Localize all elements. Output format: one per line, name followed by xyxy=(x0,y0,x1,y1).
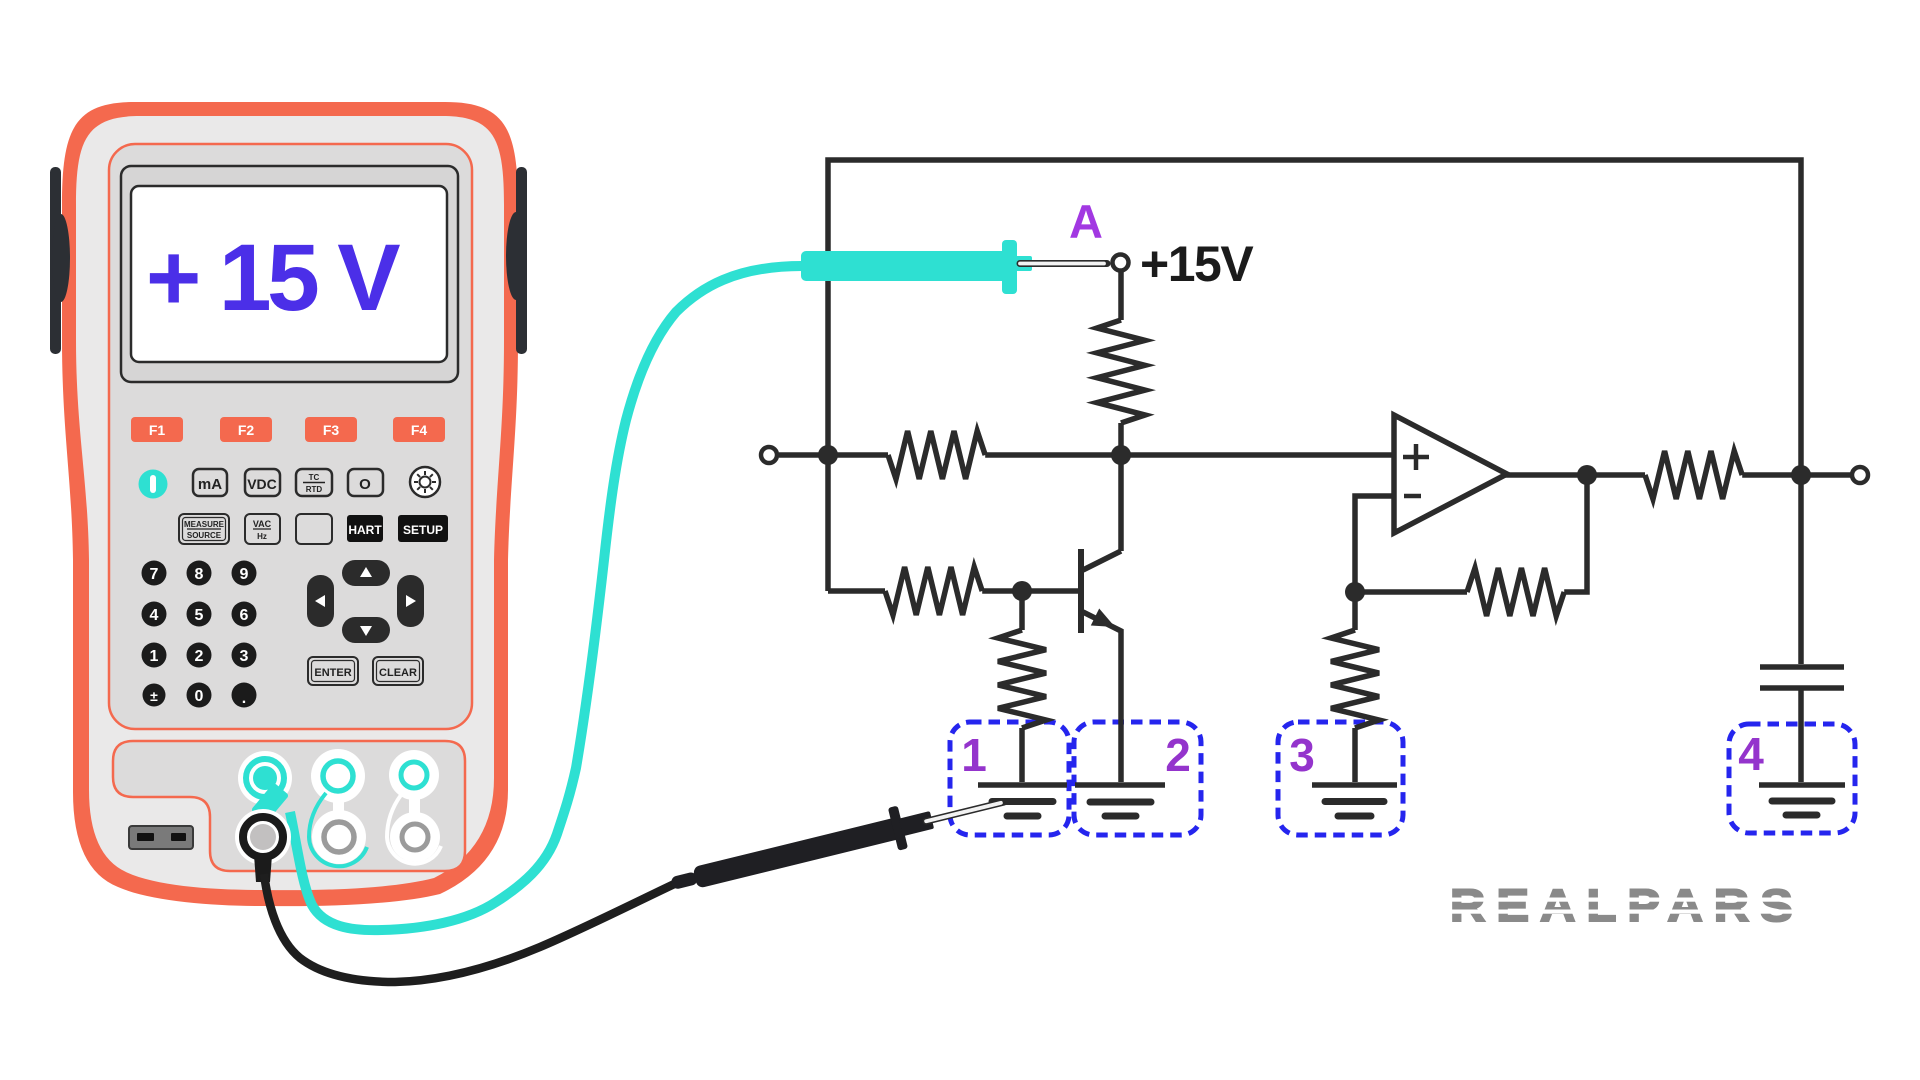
svg-text:3: 3 xyxy=(240,648,249,665)
wire: top rail and side verticals xyxy=(828,160,1801,664)
calibrator body shell xyxy=(62,102,518,906)
resistor R1 row1 xyxy=(888,431,985,479)
svg-text:3: 3 xyxy=(1289,729,1315,781)
svg-text:2: 2 xyxy=(195,648,204,665)
svg-text:VDC: VDC xyxy=(247,476,277,492)
wire: +15V node down xyxy=(1118,272,1124,320)
wire: R5 to ground 3 xyxy=(1352,728,1358,782)
right jack keyhole link xyxy=(389,750,439,800)
F2 button xyxy=(220,417,272,442)
nav pad right xyxy=(397,575,424,627)
teal source jack xyxy=(238,751,292,805)
black test lead cable xyxy=(264,874,687,982)
svg-text:Hz: Hz xyxy=(257,532,267,541)
ground box 3 xyxy=(1278,722,1403,835)
svg-text:4: 4 xyxy=(150,607,159,624)
VDC button xyxy=(245,469,280,496)
HART button xyxy=(347,515,383,542)
nav pad up xyxy=(342,560,390,586)
svg-text:HART: HART xyxy=(348,523,382,537)
resistor R4 below base node xyxy=(1019,591,1025,630)
svg-text:+ 15 V: + 15 V xyxy=(146,225,400,331)
svg-text:mA: mA xyxy=(198,476,222,493)
svg-text:F3: F3 xyxy=(323,422,340,438)
teal plug xyxy=(251,783,289,823)
ground 3 xyxy=(1312,785,1397,816)
wire: R7 to output terminal xyxy=(1742,472,1852,478)
svg-text:1: 1 xyxy=(961,729,987,781)
capacitor C1 plates xyxy=(1760,664,1844,670)
right bottom jack xyxy=(402,824,428,850)
svg-text:4: 4 xyxy=(1738,728,1764,780)
svg-text:ENTER: ENTER xyxy=(314,667,351,679)
svg-text:.: . xyxy=(242,690,246,707)
ground 4 xyxy=(1759,785,1845,815)
blank button xyxy=(296,514,332,544)
output terminal xyxy=(1852,467,1868,483)
teal test lead cable xyxy=(290,266,802,930)
black probe xyxy=(666,781,1009,905)
F1 button xyxy=(131,417,445,442)
svg-text:6: 6 xyxy=(240,607,249,624)
svg-text:MEASURE: MEASURE xyxy=(184,520,225,529)
nav pad down xyxy=(342,617,390,643)
wire: row2 to base xyxy=(982,588,1078,594)
F3 button xyxy=(305,417,357,442)
svg-text:SETUP: SETUP xyxy=(403,523,443,537)
wire: row1 to op-amp + xyxy=(985,452,1394,458)
ground 2 xyxy=(1075,785,1165,816)
wire: input to row1 xyxy=(779,452,888,458)
node: right rail junction xyxy=(1791,465,1811,485)
input terminal xyxy=(761,447,777,463)
svg-text:F1: F1 xyxy=(149,422,166,438)
black ground jack xyxy=(235,809,291,865)
resistor R3 vertical below +15V xyxy=(1097,320,1145,423)
TC/RTD button xyxy=(296,469,332,496)
ground box 1 xyxy=(950,722,1069,835)
wire: feedback left lead xyxy=(1355,589,1467,595)
svg-text:TC: TC xyxy=(309,473,320,482)
nav pad left xyxy=(307,575,334,627)
black plug xyxy=(254,855,272,882)
MEASURE/SOURCE button xyxy=(179,514,229,544)
svg-text:RTD: RTD xyxy=(306,485,323,494)
CLEAR button xyxy=(373,657,423,685)
backlight button xyxy=(410,467,440,497)
left side grip xyxy=(50,167,61,354)
node: collector junction xyxy=(1111,445,1131,465)
svg-text:SOURCE: SOURCE xyxy=(187,531,222,540)
svg-text:2: 2 xyxy=(1165,729,1191,781)
svg-text:8: 8 xyxy=(195,566,204,583)
node A terminal xyxy=(1113,255,1129,271)
node: minus junction xyxy=(1345,582,1365,602)
node: input junction xyxy=(818,445,838,465)
svg-text:A: A xyxy=(1069,195,1103,248)
resistor R6 feedback xyxy=(1467,568,1564,616)
op-amp U1 xyxy=(1394,415,1507,533)
terminal panel xyxy=(113,741,465,871)
VAC/Hz button xyxy=(245,514,280,544)
right side grip xyxy=(516,167,527,354)
svg-text:F4: F4 xyxy=(411,422,428,438)
wire: op-amp output xyxy=(1504,472,1645,478)
svg-text:F2: F2 xyxy=(238,422,255,438)
svg-text:REALPARS: REALPARS xyxy=(1450,880,1804,931)
transistor Q1 emitter arrow xyxy=(1091,609,1115,628)
resistor R2 row2 xyxy=(885,567,982,615)
resistor R7 output xyxy=(1645,451,1742,499)
svg-text:±: ± xyxy=(150,688,158,704)
calibrator inner face xyxy=(76,116,504,890)
power button xyxy=(139,470,168,499)
wire: R4 to ground 1 xyxy=(1019,728,1025,782)
numeric keypad xyxy=(142,561,257,708)
svg-text:1: 1 xyxy=(150,648,159,665)
teal probe xyxy=(801,240,1107,294)
transistor Q1 base bar xyxy=(1078,549,1084,633)
ground box 2 xyxy=(1074,722,1201,835)
svg-text:+15V: +15V xyxy=(1140,236,1254,292)
ohms button xyxy=(348,469,383,496)
ground 1 xyxy=(978,785,1067,816)
svg-text:O: O xyxy=(359,476,371,493)
right top jack xyxy=(401,762,427,788)
middle jack keyhole link xyxy=(311,749,365,803)
node: base junction xyxy=(1012,581,1032,601)
F4 button xyxy=(393,417,445,442)
SETUP button xyxy=(398,515,448,542)
ENTER button xyxy=(308,657,358,685)
svg-text:0: 0 xyxy=(195,688,204,705)
middle bottom jack xyxy=(324,822,354,852)
svg-text:CLEAR: CLEAR xyxy=(379,667,417,679)
wire: resistor to node / collector vertical xyxy=(1118,423,1124,551)
transistor Q1 emitter xyxy=(1083,612,1121,782)
node: output junction xyxy=(1577,465,1597,485)
display screen xyxy=(131,186,447,362)
display bezel xyxy=(121,166,458,382)
wire: row2 left lead xyxy=(828,588,885,594)
svg-text:VAC: VAC xyxy=(253,519,272,529)
svg-text:5: 5 xyxy=(195,607,204,624)
wire: op-amp minus input xyxy=(1355,496,1394,630)
resistor R5 below minus node xyxy=(1331,630,1379,728)
svg-text:7: 7 xyxy=(150,566,159,583)
ground box 4 xyxy=(1729,724,1855,833)
mA button xyxy=(193,469,227,496)
wire: feedback to output node xyxy=(1564,475,1587,592)
middle top jack xyxy=(323,761,353,791)
transistor Q1 collector diagonal xyxy=(1083,551,1121,570)
svg-text:9: 9 xyxy=(240,566,249,583)
usb port xyxy=(129,826,193,849)
upper keypad panel xyxy=(109,144,472,729)
capacitor C1 bottom lead xyxy=(1798,690,1804,782)
